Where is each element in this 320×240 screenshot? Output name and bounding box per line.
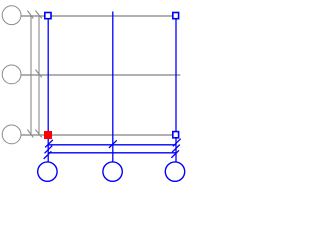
switch S11 (open, blue square) <box>45 13 51 19</box>
wire gray vertical column B (x=39) <box>38 16 40 135</box>
input node I3 (gray circle) <box>2 125 21 144</box>
input node I2 (gray circle) <box>2 65 21 84</box>
bus slash col2 <box>109 140 117 148</box>
bus slash col1-a <box>45 140 53 148</box>
bus slash col3-a <box>173 139 181 147</box>
wire blue vertical column 1 (x=48) <box>47 19 49 162</box>
crossing slash row2-colB <box>35 70 41 78</box>
output node O2 (blue circle) <box>103 162 122 181</box>
crossing slash row1-colA <box>27 11 33 19</box>
wire blue vertical column 3 (x=176) <box>175 19 177 162</box>
output node O1 (blue circle) <box>38 162 57 181</box>
bus slash col3-c <box>171 150 179 158</box>
crossing slash row1-colB <box>35 11 41 19</box>
wire bus line1 (bottom horizontal) <box>48 144 176 146</box>
wire row3 left segment (input 3 to red switch) <box>21 134 44 136</box>
wire row2 (input 2 across) <box>21 74 180 76</box>
wire row1 right segment (S11 to S13) <box>52 15 173 17</box>
crossing slash row3-colB <box>35 130 41 138</box>
wire gray vertical column A (x=31) <box>30 16 32 135</box>
wire row3 right segment (red switch to S33) <box>52 134 172 136</box>
switch S31 (closed, red square) <box>44 131 52 139</box>
switch S13 (open, blue square) <box>173 13 179 19</box>
wire row1 left segment (input 1 to switch S11) <box>21 15 44 17</box>
bus slash col1-b <box>45 146 53 154</box>
bus slash col1-c <box>44 151 52 159</box>
output node O3 (blue circle) <box>165 162 184 181</box>
switch S33 (open, blue square) <box>173 132 179 138</box>
bus slash col3-b <box>172 145 180 153</box>
wire bus line2 (bottom horizontal) <box>48 152 176 154</box>
wire blue vertical column 2 (x=113) <box>112 12 114 162</box>
crossing slash row3-colA <box>27 130 33 138</box>
input node I1 (gray circle) <box>2 6 21 25</box>
